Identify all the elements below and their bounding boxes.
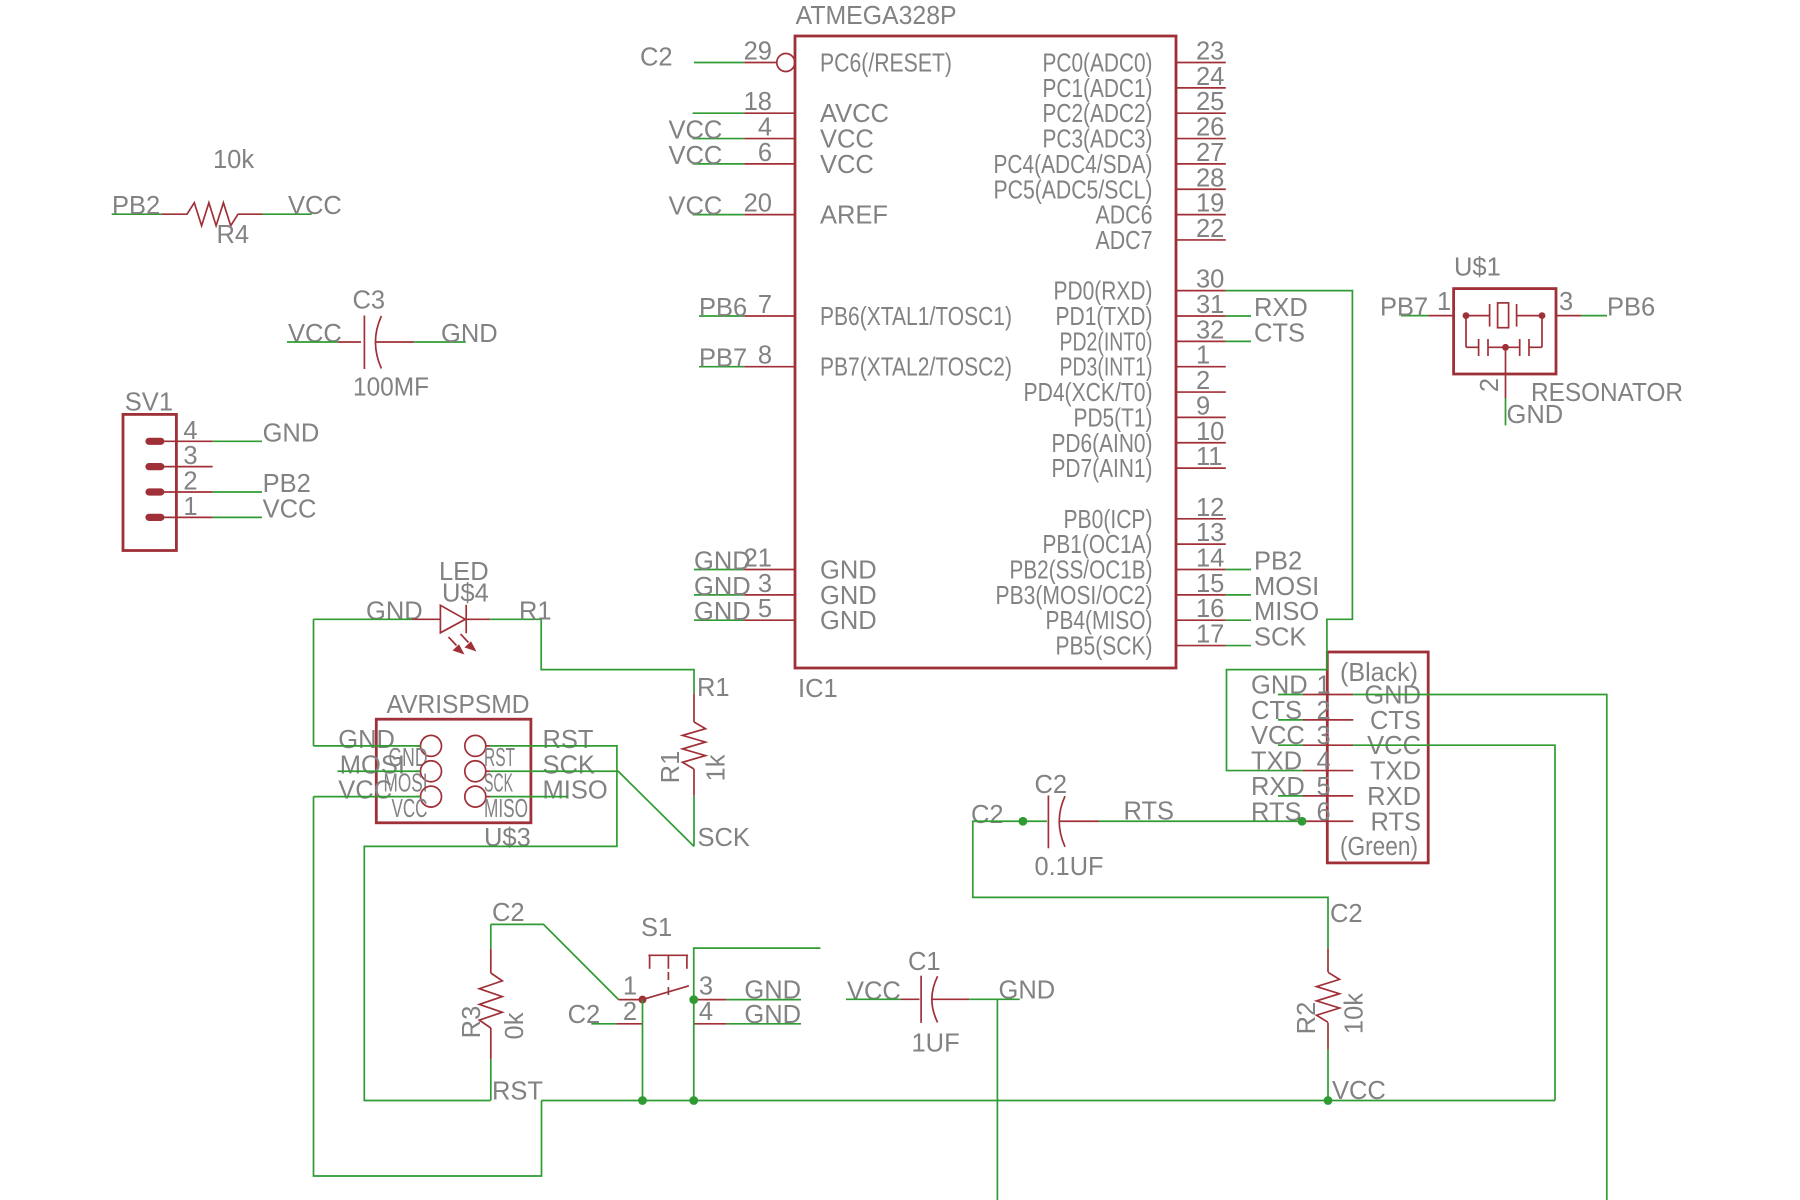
svg-text:VCC: VCC [820,151,874,179]
pin pad SV1 pin 4 [145,438,164,445]
wire VCC stub to C1 [846,998,901,1000]
wire R3 bottom to RST net [490,1059,492,1101]
svg-text:SV1: SV1 [125,389,173,417]
wire stub GND at FTDI pin 1 [1278,694,1303,696]
pin line SV1 pin 4 [155,440,213,442]
svg-text:PB4(MISO): PB4(MISO) [1046,607,1153,635]
wire stub at IC1 pin 4 [693,138,745,140]
IC1 ATMEGA328P body [795,36,1176,668]
svg-text:2: 2 [1476,378,1504,392]
wire C3 to GND [414,341,466,343]
svg-text:GND: GND [1364,682,1421,710]
pin line IC1 pin 4 [744,138,795,140]
svg-text:AVCC: AVCC [820,100,889,128]
pin line S1 pin1 [619,999,643,1001]
svg-text:R3: R3 [458,1006,486,1039]
svg-text:PB5(SCK): PB5(SCK) [1056,633,1153,661]
svg-text:PC3(ADC3): PC3(ADC3) [1043,126,1153,154]
svg-text:SCK: SCK [484,770,513,798]
svg-text:R1: R1 [519,597,552,625]
svg-text:1k: 1k [703,754,731,781]
pin line FTDI pin 6 RTS [1303,820,1353,822]
svg-text:PB0(ICP): PB0(ICP) [1064,506,1153,534]
svg-text:VCC: VCC [820,126,874,154]
wire SV1 pin 1 to VCC [213,516,262,518]
svg-text:6: 6 [1317,798,1331,826]
svg-text:MOSI: MOSI [340,751,405,779]
wire net PB2 to R4 [112,213,162,215]
svg-text:PB7: PB7 [1380,294,1428,322]
pin line IC1 pin 28 [1176,188,1226,190]
svg-text:19: 19 [1196,190,1224,218]
svg-text:PD1(TXD): PD1(TXD) [1056,303,1153,331]
svg-text:C2: C2 [492,899,525,927]
wire S1 pin1 column to VCC rail [642,1000,644,1101]
wire C2 to RTS pin [1099,820,1302,822]
pin line IC1 pin 24 [1176,87,1226,89]
svg-text:1UF: 1UF [912,1030,960,1058]
wire MOSI stub to U$3 [338,770,421,772]
pin line FTDI pin 2 CTS [1303,719,1353,721]
svg-text:PB1(OC1A): PB1(OC1A) [1043,531,1153,559]
pin line FTDI pin 3 VCC [1303,744,1353,746]
pin line S1 pin4 [694,1023,727,1025]
wire C2 left to R2 top [973,821,1328,948]
svg-text:PD4(XCK/T0): PD4(XCK/T0) [1024,379,1153,407]
pin circle U$3 SCK [465,761,486,782]
switch S1 plunger dashed [667,972,669,999]
pin line IC1 pin 26 [1176,138,1226,140]
pin line IC1 pin 19 [1176,214,1226,216]
wire S1 pin3 to GND stub [727,999,801,1001]
wire U$3 MISO stub [490,796,568,798]
wire stub net SCK at IC1 pin 17 [1226,645,1251,647]
pin line IC1 pin 27 [1176,163,1226,165]
wire C1 to GND [969,998,1020,1000]
svg-text:SCK: SCK [1254,624,1306,652]
wire R4 to VCC [263,213,312,215]
wire PB7 stub to resonator [1401,315,1428,317]
svg-text:PC1(ADC1): PC1(ADC1) [1043,75,1153,103]
svg-text:PB3(MOSI/OC2): PB3(MOSI/OC2) [996,582,1153,610]
svg-text:C2: C2 [1330,900,1363,928]
pin line IC1 pin 20 [744,214,795,216]
svg-text:1: 1 [623,973,637,1001]
svg-text:PB6: PB6 [699,294,747,322]
resonator U$1 body [1454,289,1556,374]
wire U$3 SCK pin to diagonal [490,771,694,846]
wire VCC to C3 [287,341,338,343]
wire stub at IC1 pin 18 [693,112,745,114]
svg-text:31: 31 [1196,291,1224,319]
svg-text:VCC: VCC [669,142,723,170]
wire stub at IC1 pin 6 [693,163,745,165]
connector SV1 body [123,414,176,550]
svg-text:17: 17 [1196,621,1224,649]
capacitor C3 [338,316,414,370]
svg-text:4: 4 [758,114,772,142]
svg-text:VCC: VCC [847,977,901,1005]
svg-text:GND: GND [999,976,1056,1004]
pin line FTDI pin 1 GND [1303,694,1353,696]
svg-text:2: 2 [183,468,197,496]
pin stub U$3 MOSI [416,770,421,772]
svg-text:RXD: RXD [1254,294,1308,322]
svg-text:U$4: U$4 [442,580,489,608]
svg-text:MISO: MISO [484,795,528,823]
junction dot FTDI RTS pin6 [1298,817,1307,826]
svg-text:U$1: U$1 [1454,254,1501,282]
wire S1 pin3 column to VCC rail [693,1000,695,1101]
svg-text:MOSI: MOSI [1254,573,1319,601]
capacitor C2 [1023,796,1099,849]
wire R2 bottom to VCC rail [1327,1050,1329,1101]
wire VCC net down from U$3 [314,797,542,1176]
svg-text:PC6(/RESET): PC6(/RESET) [820,50,952,78]
pin line IC1 pin 6 [744,163,795,165]
svg-text:ATMEGA328P: ATMEGA328P [796,2,957,30]
svg-text:VCC: VCC [338,777,392,805]
svg-text:2: 2 [1317,697,1331,725]
svg-text:20: 20 [744,190,772,218]
svg-text:C1: C1 [908,948,941,976]
wire PD0 pin30 to FTDI TXD pin4 [1226,291,1353,771]
wire S1 pin3 riser up and right [694,948,821,1000]
svg-text:0.1UF: 0.1UF [1035,853,1104,881]
junction dot resonator pin1 [1463,312,1470,319]
svg-text:1: 1 [1317,672,1331,700]
wire stub at IC1 pin 3 [694,594,744,596]
svg-text:RXD: RXD [1367,783,1421,811]
svg-text:PD7(AIN1): PD7(AIN1) [1052,455,1153,483]
svg-text:(Green): (Green) [1340,833,1418,861]
pin stub U$3 GND [416,745,421,747]
svg-text:VCC: VCC [669,193,723,221]
capacitor C1 [901,976,970,1023]
wire GND bus to U$3 GND pin [314,745,421,747]
pin line SV1 pin 2 [155,491,213,493]
svg-text:GND: GND [694,598,751,626]
pin circle U$3 RST [465,735,486,756]
svg-text:11: 11 [1196,443,1222,471]
pin line IC1 pin 11 [1176,467,1226,469]
svg-text:CTS: CTS [1254,319,1305,347]
svg-text:26: 26 [1196,114,1224,142]
svg-text:GND: GND [338,726,395,754]
wire GND bus to LED anode [314,618,413,620]
svg-text:4: 4 [1317,748,1331,776]
pin line IC1 pin 32 [1176,340,1226,342]
resistor R2 [1317,949,1340,1050]
pin line IC1 pin 12 [1176,518,1226,520]
svg-text:29: 29 [744,38,772,66]
svg-text:VCC: VCC [263,495,317,523]
svg-text:13: 13 [1196,519,1224,547]
pin circle U$3 GND [421,735,442,756]
svg-text:GND: GND [263,419,320,447]
junction dot at C2 left [1019,817,1028,826]
pin line IC1 pin 13 [1176,543,1226,545]
svg-text:PB2(SS/OC1B): PB2(SS/OC1B) [1010,557,1153,585]
wire stub RXD at FTDI pin 5 [1278,795,1303,797]
resistor R1 [683,693,706,795]
svg-text:RST: RST [484,744,515,772]
wire C1 GND down off page [996,999,998,1200]
svg-text:3: 3 [758,570,772,598]
wire stub CTS at FTDI pin 2 [1278,719,1303,721]
svg-text:GND: GND [820,557,877,585]
svg-text:GND: GND [366,597,423,625]
wire stub net CTS at IC1 pin 32 [1226,340,1251,342]
wire stub VCC at FTDI pin 3 [1278,744,1303,746]
pin stub U$3 SCK [486,770,490,772]
svg-text:MISO: MISO [543,777,608,805]
wire stub at IC1 pin 20 [693,214,745,216]
pin line IC1 pin 23 [1176,62,1226,64]
wire resonator pin3 to PB6 stub [1581,315,1607,317]
pin line IC1 pin 31 [1176,315,1226,317]
svg-text:PB2: PB2 [1254,548,1302,576]
pin line resonator pin3 [1556,315,1581,317]
svg-text:VCC: VCC [288,320,342,348]
svg-text:PD3(INT1): PD3(INT1) [1060,354,1153,382]
pin line IC1 pin 14 [1176,569,1226,571]
svg-text:PC4(ADC4/SDA): PC4(ADC4/SDA) [994,151,1153,179]
pin line IC1 pin 2 [1176,391,1226,393]
pin line FTDI pin 4 TXD [1303,770,1353,772]
svg-text:6: 6 [758,139,772,167]
pin line IC1 pin 7 [744,315,795,317]
wire FTDI GND pin1 to bottom right [1353,695,1607,1200]
svg-text:RTS: RTS [1124,798,1175,826]
wire U$3 RST pin loop to R3 [364,746,617,1101]
pin 29 line with inversion circle [744,62,777,64]
svg-text:MISO: MISO [1254,598,1319,626]
svg-text:S1: S1 [641,914,672,942]
wire stub at IC1 pin 7 [699,315,744,317]
wire stub net RXD at IC1 pin 31 [1226,315,1251,317]
svg-text:22: 22 [1196,215,1224,243]
wire GND bus vertical from LED row [313,619,315,746]
wire R1 bottom to SCK junction [693,796,695,847]
svg-text:C2: C2 [640,44,673,72]
wire stub net C2 at IC1 pin 29 [694,62,744,64]
svg-text:10k: 10k [1341,993,1369,1034]
pin line IC1 pin 5 [744,619,795,621]
connector U$3 AVRISPSMD body [376,719,531,823]
pin pad SV1 pin 2 [145,488,164,495]
svg-text:28: 28 [1196,164,1224,192]
wire stub at IC1 pin 21 [694,569,744,571]
svg-text:GND: GND [441,320,498,348]
svg-text:GND: GND [694,548,751,576]
pin line IC1 pin 15 [1176,594,1226,596]
wire VCC to U$3 VCC pin [314,796,421,798]
svg-text:C2: C2 [568,1001,601,1029]
pin line IC1 pin 3 [744,594,795,596]
pin line IC1 pin 21 [744,569,795,571]
svg-text:GND: GND [694,573,751,601]
svg-text:R1: R1 [697,674,730,702]
pin line S1 pin3 [694,999,727,1001]
wire stub net PB2 at IC1 pin 14 [1226,569,1251,571]
svg-text:3: 3 [1317,722,1331,750]
pin line IC1 pin 10 [1176,442,1226,444]
resistor R4 [162,203,263,226]
svg-text:PB7(XTAL2/TOSC2): PB7(XTAL2/TOSC2) [820,354,1012,382]
wire SV1 pin 4 to GND [213,440,262,442]
pin line SV1 pin 3 [155,466,213,468]
svg-text:2: 2 [623,998,637,1026]
svg-text:AREF: AREF [820,202,888,230]
svg-text:9: 9 [1196,392,1210,420]
wire R3 top [490,924,492,949]
pin line IC1 pin 8 [744,366,795,368]
wire stub at IC1 pin 8 [699,366,744,368]
svg-text:2: 2 [1196,367,1210,395]
pin line IC1 pin 30 [1176,290,1226,292]
connector FTDI body [1327,652,1428,863]
svg-text:PB6(XTAL1/TOSC1): PB6(XTAL1/TOSC1) [820,303,1012,331]
wire stub C2 at S1 pin2 [591,1023,616,1025]
svg-text:8: 8 [758,342,772,370]
pin stub U$3 RST [486,745,490,747]
junction dot S1 pin3 column at rail [689,1096,698,1105]
pin line resonator pin2 below body [1505,374,1507,398]
svg-text:GND: GND [820,582,877,610]
svg-text:0k: 0k [501,1012,529,1039]
pin stub U$3 MISO [486,796,490,798]
pin circle U$3 VCC [421,786,442,807]
svg-text:RTS: RTS [1370,808,1421,836]
svg-text:16: 16 [1196,595,1224,623]
svg-text:10k: 10k [213,146,254,174]
pin circle U$3 MISO [465,786,486,807]
junction dot S1 pin3 [689,995,698,1004]
svg-text:C3: C3 [353,287,386,315]
junction dot S1 pin1 column at rail [638,1096,647,1105]
switch S1 actuator [643,986,689,1000]
svg-text:3: 3 [183,442,197,470]
svg-text:IC1: IC1 [798,675,838,703]
svg-text:GND: GND [744,1001,801,1029]
svg-text:1: 1 [1196,342,1210,370]
svg-text:SCK: SCK [698,824,750,852]
junction dot resonator pin2 [1502,344,1509,351]
svg-text:TXD: TXD [1370,758,1421,786]
svg-text:100MF: 100MF [353,374,429,402]
svg-text:PC5(ADC5/SCL): PC5(ADC5/SCL) [994,176,1153,204]
junction dot R2 VCC rail [1324,1096,1333,1105]
svg-text:PD5(T1): PD5(T1) [1074,404,1153,432]
svg-text:GND: GND [820,607,877,635]
wire LED cathode to R1 [490,618,541,620]
LED U$4 emission arrows [449,634,477,655]
svg-text:27: 27 [1196,139,1224,167]
svg-text:R1: R1 [657,751,685,784]
svg-text:C2: C2 [971,801,1004,829]
svg-text:RESONATOR: RESONATOR [1531,379,1683,407]
wire stub at IC1 pin 5 [694,619,744,621]
svg-text:25: 25 [1196,88,1224,116]
svg-text:PD6(AIN0): PD6(AIN0) [1052,430,1153,458]
pin line IC1 pin 18 [744,112,795,114]
junction dot S1 pin1 [639,996,647,1004]
svg-text:VCC: VCC [288,192,342,220]
svg-text:ADC6: ADC6 [1096,202,1153,230]
svg-text:4: 4 [699,998,713,1026]
svg-text:AVRISPSMD: AVRISPSMD [387,691,530,719]
pin line IC1 pin 1 [1176,366,1226,368]
svg-text:1: 1 [183,493,197,521]
wire VCC rail [542,1100,1556,1102]
svg-text:PD2(INT0): PD2(INT0) [1060,328,1153,356]
pin line resonator pin1 [1428,315,1453,317]
pin pad SV1 pin 3 [145,463,164,470]
wire SV1 pin 2 to PB2 [213,491,262,493]
svg-text:24: 24 [1196,63,1224,91]
wire stub net MISO at IC1 pin 16 [1226,619,1251,621]
pin line IC1 pin 17 [1176,645,1226,647]
pin circle U$3 MOSI [421,761,442,782]
resonator internal wiring [1466,316,1542,374]
svg-text:10: 10 [1196,418,1224,446]
svg-text:ADC7: ADC7 [1096,227,1153,255]
svg-text:VCC: VCC [669,117,723,145]
svg-text:1: 1 [1437,288,1451,316]
svg-text:PD0(RXD): PD0(RXD) [1054,278,1153,306]
svg-text:RST: RST [492,1078,543,1106]
resonator internal crystal [1490,303,1517,328]
wire resonator pin2 to GND stub [1505,398,1507,425]
pin line S1 pin2 [616,1023,642,1025]
pin line IC1 pin 16 [1176,619,1226,621]
svg-text:14: 14 [1196,545,1224,573]
svg-text:23: 23 [1196,38,1224,66]
wire S1 pin4 to GND stub [727,1023,801,1025]
svg-text:PC2(ADC2): PC2(ADC2) [1043,100,1153,128]
svg-text:R2: R2 [1293,1002,1321,1035]
svg-text:3: 3 [699,973,713,1001]
svg-text:VCC: VCC [1367,732,1421,760]
svg-text:PB2: PB2 [263,470,311,498]
svg-text:U$3: U$3 [484,824,531,852]
pin stub U$3 VCC [416,796,421,798]
resistor R3 [479,949,502,1059]
switch S1 body bracket [648,955,688,969]
svg-text:18: 18 [744,88,772,116]
svg-text:PB7: PB7 [699,345,747,373]
svg-text:VCC: VCC [392,795,428,823]
wire C2 corner to S1 pin1 diagonal [491,924,619,999]
LED U$4 diode [412,605,490,634]
wire net R1 corner down [541,619,694,693]
wire stub net MOSI at IC1 pin 15 [1226,594,1251,596]
svg-text:5: 5 [1317,773,1331,801]
svg-text:15: 15 [1196,570,1224,598]
svg-text:30: 30 [1196,266,1224,294]
svg-text:PB6: PB6 [1607,294,1655,322]
svg-text:PC0(ADC0): PC0(ADC0) [1043,50,1153,78]
pin pad SV1 pin 1 [145,514,164,521]
svg-text:4: 4 [183,417,197,445]
svg-text:RST: RST [543,726,594,754]
junction dot resonator pin3 [1539,312,1546,319]
pin line IC1 pin 25 [1176,112,1226,114]
svg-text:PB2: PB2 [112,192,160,220]
svg-text:21: 21 [744,545,772,573]
pin line FTDI pin 5 RXD [1303,795,1353,797]
